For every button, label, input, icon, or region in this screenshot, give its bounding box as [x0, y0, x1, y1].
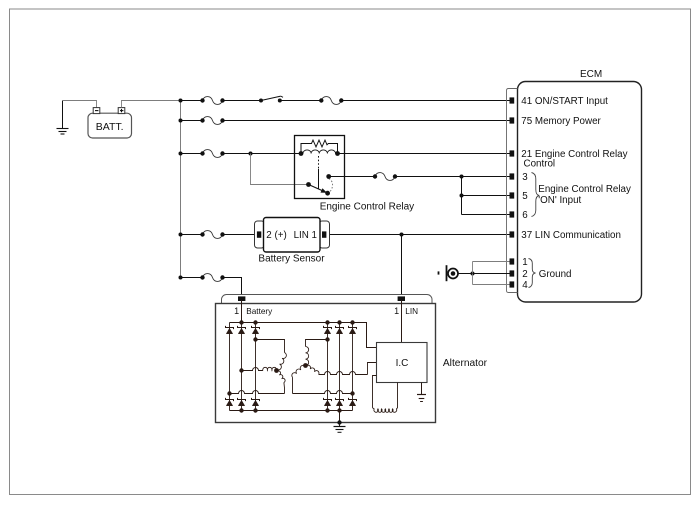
alternator connector shell — [222, 295, 433, 313]
svg-text:75 Memory Power: 75 Memory Power — [521, 116, 601, 127]
diode D2 left bridge top — [238, 326, 246, 329]
node top bus right col2 — [337, 320, 341, 324]
svg-text:BATT.: BATT. — [96, 121, 124, 133]
alternator box — [216, 304, 436, 423]
svg-text:Battery: Battery — [246, 307, 273, 316]
wire left bridge phase column 1 — [229, 323, 231, 411]
svg-text:Alternator: Alternator — [443, 358, 488, 369]
node row3 branch — [249, 152, 253, 156]
svg-text:LIN: LIN — [405, 307, 418, 316]
diode D3 left bridge top — [252, 326, 260, 329]
wire right wye phase sense to IC — [319, 372, 368, 375]
wire junction to ECM pin 5 — [462, 195, 510, 197]
diode D1b left bridge bottom — [226, 398, 234, 401]
wire left bridge phase column 2 — [241, 323, 243, 411]
svg-text:Engine Control Relay: Engine Control Relay — [320, 201, 415, 212]
wire right wye left arm to col3 — [350, 391, 354, 395]
ECM box — [518, 82, 642, 303]
node top bus right col1 — [325, 320, 329, 324]
wire fuse to battery sensor — [223, 234, 258, 236]
svg-text:Control: Control — [524, 159, 556, 170]
svg-text:1: 1 — [522, 257, 527, 268]
node relay coil right — [335, 151, 340, 156]
node bottom bus left col3 — [253, 408, 257, 412]
ECM pin 2 — [510, 270, 515, 276]
svg-text:Ground: Ground — [539, 269, 572, 280]
wire to ECM pin 1 — [473, 261, 510, 263]
relay switch blade — [309, 185, 328, 194]
wire junction to ECM pin 6 — [462, 214, 510, 216]
wire row1 fuse to switch — [223, 100, 262, 102]
wire ground bottom bus — [230, 410, 353, 412]
fuse F7 — [203, 274, 223, 282]
wire battery sensor to ECM pin 37 — [326, 234, 510, 236]
ground (chassis, ECM) — [438, 271, 440, 274]
svg-text:3: 3 — [522, 172, 528, 183]
node bottom bus right col1 — [325, 408, 329, 412]
ECM pin 75 — [510, 117, 515, 123]
alternator terminal 1 LIN — [398, 296, 405, 301]
battery sensor left connector shell — [255, 221, 265, 248]
regulator U3 I.C box — [377, 343, 428, 383]
battery sensor pin LIN 1 — [322, 231, 326, 237]
battery sensor U2 box — [264, 218, 321, 253]
diode D1 right bridge top — [324, 326, 332, 329]
stator coil left arm (left wye) — [263, 367, 277, 370]
node ground junction — [471, 272, 475, 276]
node left stator center — [274, 368, 279, 373]
wire left wye top arm to col3 — [253, 337, 257, 341]
wire row1 bus to fuse — [181, 100, 203, 102]
node relay coil left — [299, 151, 304, 156]
svg-text:I.C: I.C — [396, 358, 409, 369]
ECM pin 6 — [510, 211, 515, 217]
node relay fixed contact — [326, 174, 331, 179]
node right stator center — [303, 363, 308, 368]
wire chassis ground to junction — [458, 273, 473, 275]
node top bus battery — [239, 320, 243, 324]
node top bus left col3 — [253, 320, 257, 324]
battery negative terminal — [93, 108, 100, 114]
fuse F2 row1 — [321, 97, 341, 105]
wire LIN drop to alternator — [401, 235, 403, 298]
diode D3b left bridge bottom — [252, 398, 260, 401]
wire branch to relay common — [251, 154, 309, 185]
wire left bridge phase column 3 — [255, 323, 257, 411]
wire to ECM pin 4 — [473, 284, 510, 286]
svg-text:Engine Control Relay: Engine Control Relay — [538, 184, 631, 195]
node junction pin5 row — [460, 194, 464, 198]
switch S1 (ignition) — [259, 99, 263, 103]
diode D3b right bridge bottom — [349, 398, 357, 401]
wire row1 switch to fuse2 — [280, 100, 322, 102]
wire row5 bus to fuse — [181, 277, 203, 279]
wire battery positive to bus — [122, 101, 181, 108]
node bottom bus right col2 — [337, 408, 341, 412]
ECM connector outline — [507, 89, 518, 293]
wire to ECM pin 2 — [473, 273, 510, 275]
stator coil top arm (left wye) — [277, 353, 287, 371]
node bus row2 — [179, 119, 183, 123]
wire right wye top arm to col1 — [325, 337, 329, 341]
diode D2 right bridge top — [336, 326, 344, 329]
svg-text:Battery Sensor: Battery Sensor — [258, 253, 325, 264]
stator coil right arm (right wye) — [306, 364, 320, 374]
relay K1 box — [295, 136, 345, 199]
svg-text:37 LIN Communication: 37 LIN Communication — [521, 230, 621, 241]
ECM pin 1 — [510, 258, 515, 264]
ground (alternator case) — [339, 411, 341, 427]
node bus row LIN — [179, 233, 183, 237]
diode D3 right bridge top — [349, 326, 357, 329]
node bus row5 — [179, 276, 183, 280]
wire relay to ECM pin 21 — [338, 153, 510, 155]
brace pins 3-5-6 — [532, 173, 540, 217]
svg-text:2 (+): 2 (+) — [266, 230, 286, 241]
svg-text:1: 1 — [394, 306, 399, 316]
node top bus right col3 — [350, 320, 354, 324]
svg-text:6: 6 — [522, 210, 528, 221]
wire battery negative to ground — [63, 101, 97, 108]
relay contact travel arc — [329, 179, 333, 192]
fuse F3 row2 — [203, 117, 223, 125]
wire row1 fuse2 to ECM pin 41 — [341, 100, 509, 102]
battery positive terminal — [118, 108, 125, 114]
wire left wye left arm to col2 — [239, 368, 243, 372]
wire main power bus vertical — [180, 101, 182, 278]
ECM pin 3 — [510, 173, 515, 179]
relay actuator dashed link — [318, 156, 320, 169]
diode D1 left bridge top — [226, 326, 234, 329]
wire right bridge phase column 2 — [339, 323, 341, 411]
stator coil top arm (right wye) — [306, 347, 309, 366]
battery BATT. — [88, 113, 132, 138]
relay coil — [303, 150, 336, 154]
node junction pin3 row — [460, 175, 464, 179]
stator coil bottom arm (left wye) — [277, 370, 286, 382]
svg-text:ECM: ECM — [580, 69, 602, 80]
svg-text:LIN 1: LIN 1 — [294, 230, 317, 241]
fuse F5 — [375, 173, 395, 181]
ECM pin 4 — [510, 281, 515, 287]
battery sensor pin 2 (+) — [257, 231, 261, 237]
ECM pin 41 — [510, 97, 515, 103]
fuse F1 row1 — [203, 97, 223, 105]
svg-text:2: 2 — [522, 269, 527, 280]
wire row2 bus to fuse — [181, 120, 203, 122]
wire row3 bus to fuse — [181, 153, 203, 155]
field coil L1 (rotor) — [373, 376, 377, 408]
wire row5 to alternator battery terminal — [223, 278, 242, 298]
brace pins 1-2-4 — [529, 259, 536, 288]
wire row3 fuse to relay — [223, 153, 302, 155]
wire relay contact to fuse — [329, 176, 375, 178]
wire right bridge phase column 1 — [327, 323, 329, 411]
node bottom bus left col2 — [239, 408, 243, 412]
ground (battery negative) — [62, 101, 64, 129]
svg-text:'ON' Input: 'ON' Input — [538, 195, 581, 206]
svg-text:4: 4 — [522, 280, 528, 291]
diode D2b right bridge bottom — [336, 398, 344, 401]
ECM pin 37 — [510, 231, 515, 237]
alternator terminal 1 Battery — [238, 296, 245, 301]
wire B+ top bus — [230, 323, 377, 348]
ECM pin 5 — [510, 192, 515, 198]
wire ground junction vertical — [472, 262, 474, 285]
node LIN drop — [400, 233, 404, 237]
svg-text:41 ON/START Input: 41 ON/START Input — [521, 96, 608, 107]
wire junction vertical — [461, 177, 463, 215]
resistor R1 (relay suppression) — [301, 140, 338, 153]
fuse F6 — [203, 231, 223, 239]
node bus row3 — [179, 152, 183, 156]
diode D2b left bridge bottom — [238, 398, 246, 401]
fuse F4 row3 — [203, 150, 223, 158]
wire row LIN bus to fuse — [181, 234, 203, 236]
ECM pin 21 — [510, 150, 515, 156]
diode D1b right bridge bottom — [324, 398, 332, 401]
wire left wye bottom arm to col1 — [227, 391, 231, 395]
battery sensor right connector shell — [319, 221, 330, 248]
wire fuse to ECM pin 3 — [395, 176, 510, 178]
stator coil left arm (right wye) — [291, 364, 305, 377]
svg-text:5: 5 — [522, 191, 528, 202]
wire right bridge phase column 3 — [352, 323, 354, 411]
node bus row1 — [179, 99, 183, 103]
wire row2 fuse to ECM pin 75 — [223, 120, 510, 122]
ground (IC regulator) — [421, 383, 423, 395]
svg-text:1: 1 — [234, 306, 239, 316]
